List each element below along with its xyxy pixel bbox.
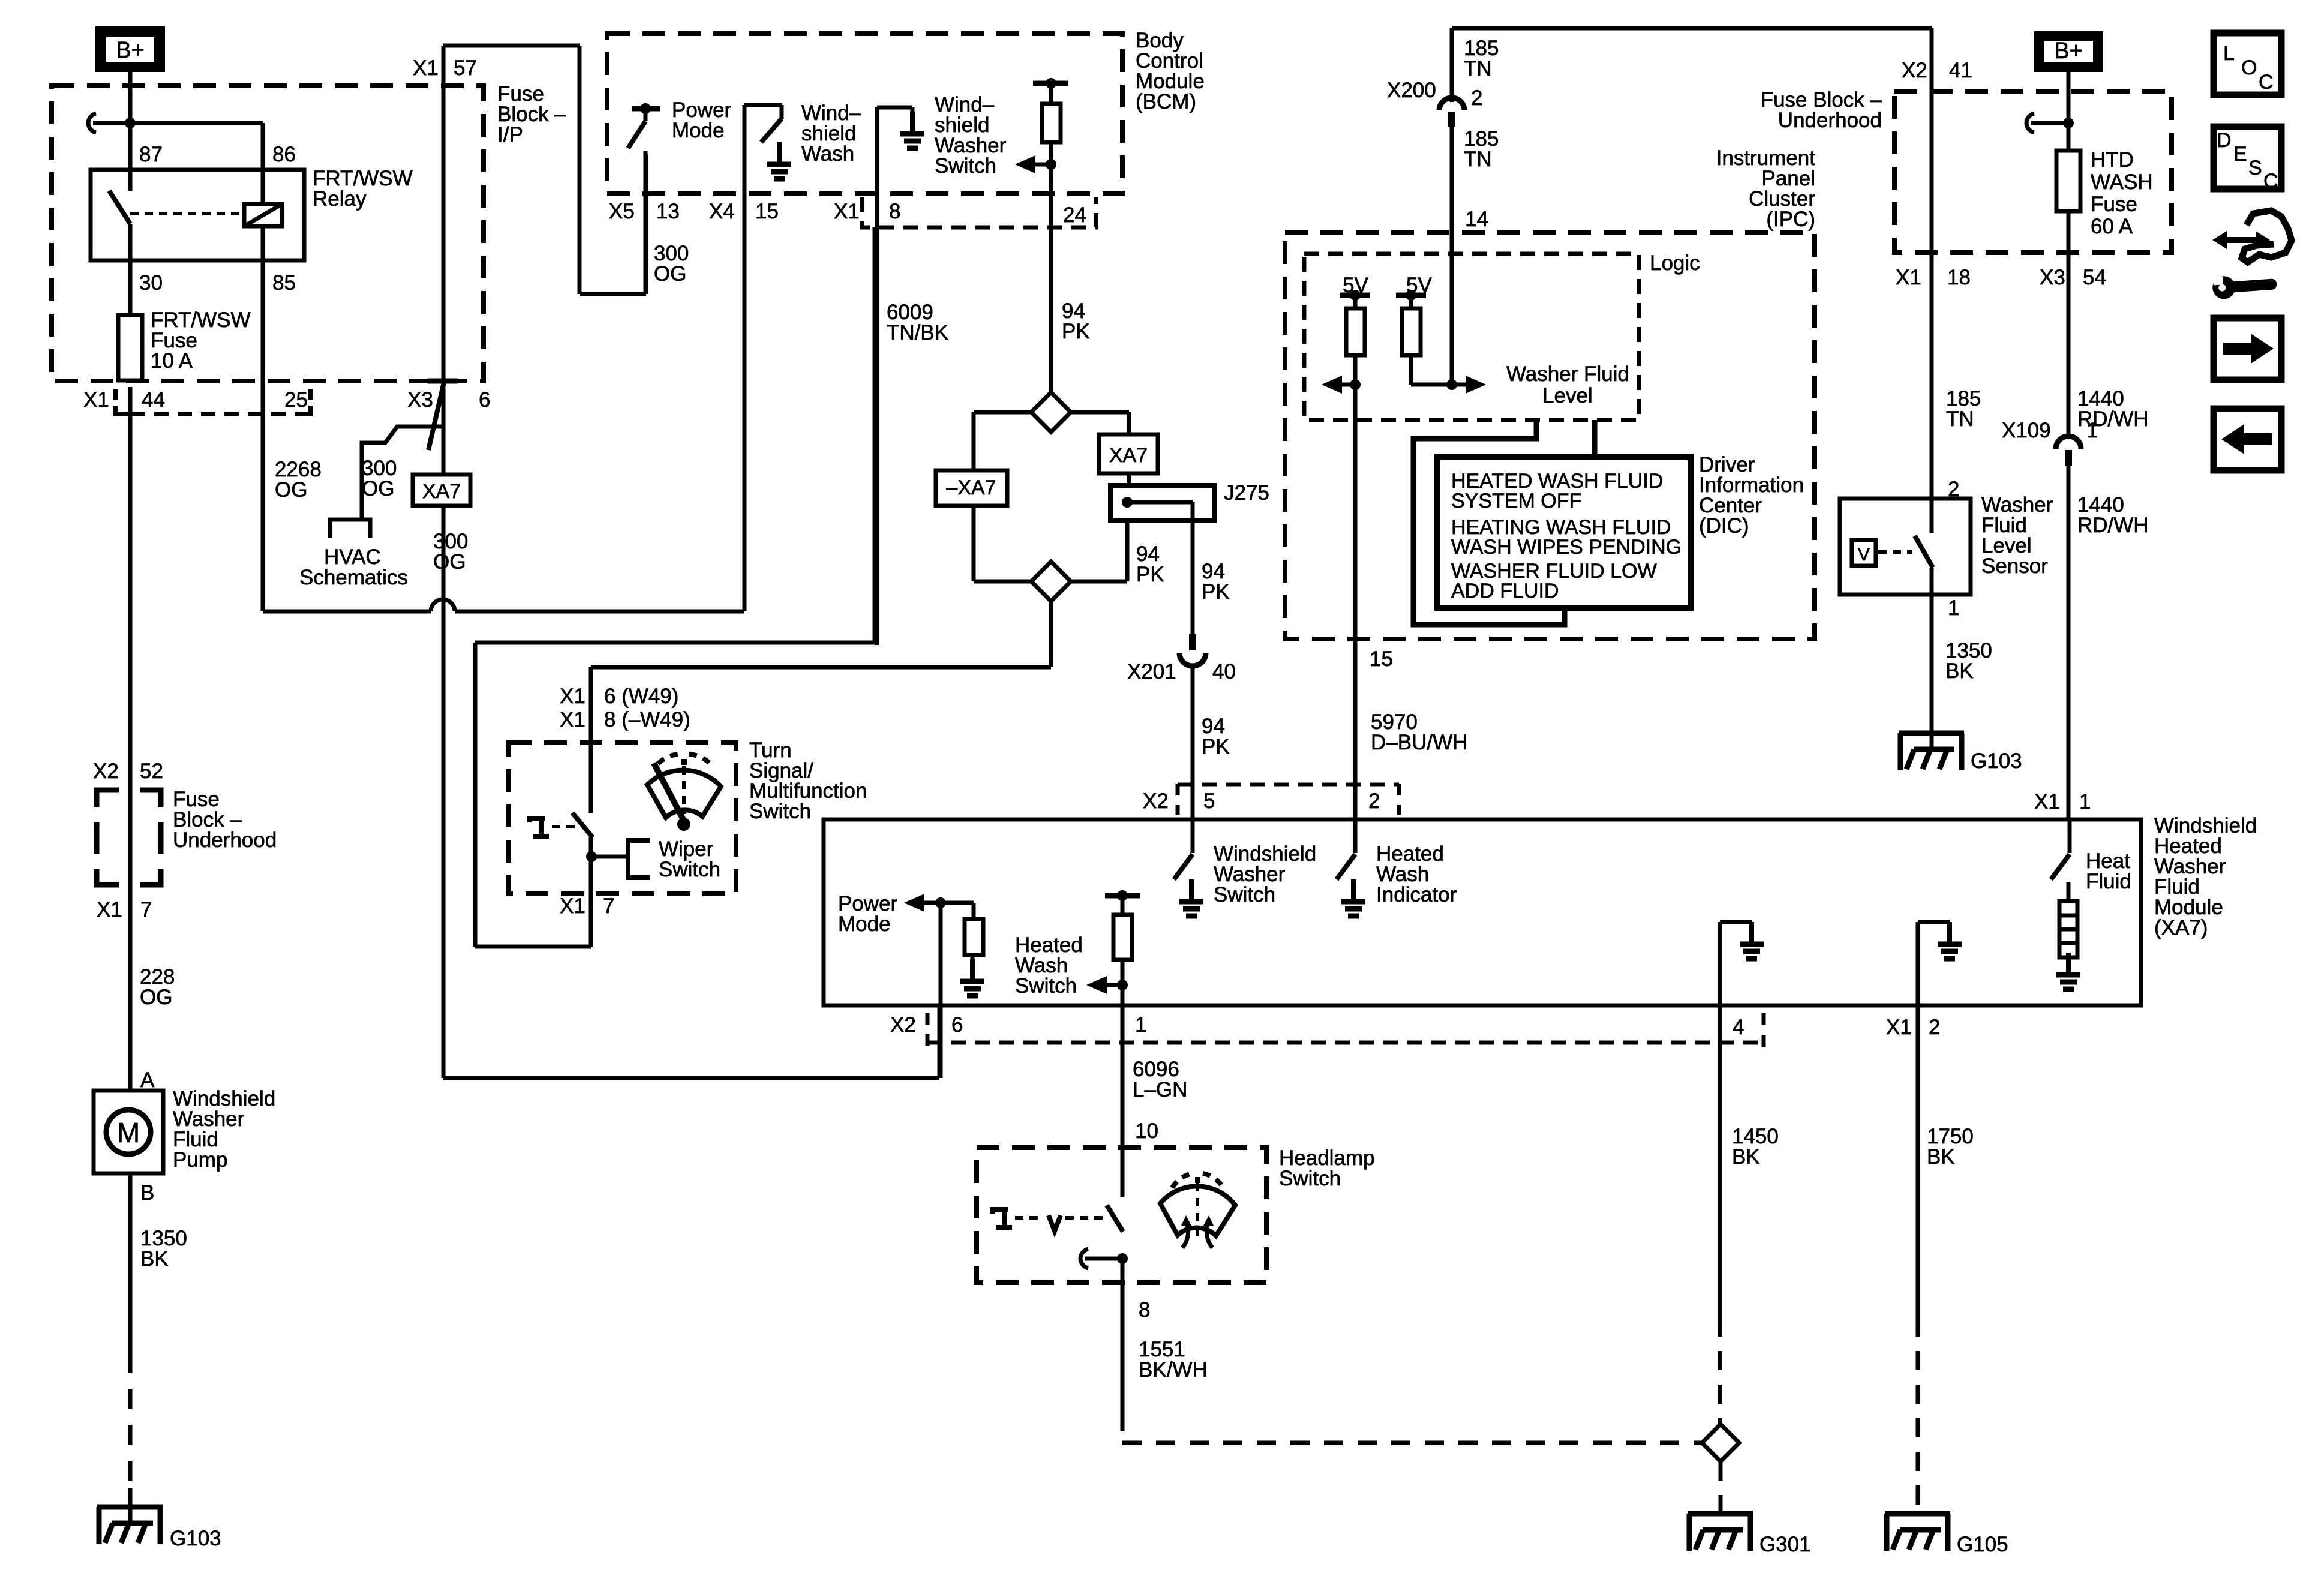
module heated wash column <box>1105 890 1140 1007</box>
svg-text:Sensor: Sensor <box>1981 554 2048 578</box>
svg-text:30: 30 <box>139 271 163 295</box>
wire to turn signal switch <box>589 667 593 813</box>
svg-text:X3: X3 <box>2040 266 2065 289</box>
label Power Mode (BCM) <box>672 98 732 142</box>
label 94 PK (pin24) <box>1062 299 1090 343</box>
label 1350 BK (right) <box>1945 639 1992 683</box>
left branch to diamond 2 <box>974 506 1031 581</box>
svg-text:10 A: 10 A <box>151 349 193 373</box>
labels X1 7 <box>97 898 152 921</box>
svg-text:I/P: I/P <box>497 123 523 146</box>
svg-text:1: 1 <box>1948 596 1959 620</box>
svg-text:PK: PK <box>1202 735 1230 758</box>
label 1440 RD/WH (top) <box>2077 387 2149 431</box>
connector X201 <box>1179 634 1206 666</box>
dashed wire to splice <box>1122 1412 1701 1443</box>
svg-text:PK: PK <box>1062 320 1090 343</box>
pump motor circle <box>106 1110 151 1154</box>
wire 2268 OG run <box>263 599 744 611</box>
label 1440 RD/WH (lower) <box>2077 493 2149 537</box>
washer fluid level sensor box <box>1840 499 1971 595</box>
labels X1 1 (module top right) <box>2034 790 2091 813</box>
module ground 2 <box>1918 922 1962 1005</box>
HVAC branch <box>362 427 443 520</box>
svg-text:X4: X4 <box>709 200 735 223</box>
label 6009 TN/BK <box>887 301 948 344</box>
svg-text:5: 5 <box>1203 789 1215 813</box>
connector X1 bracket <box>113 389 313 414</box>
module power mode resistor branch <box>941 903 983 981</box>
fuse block underhood dashed box <box>1894 91 2172 253</box>
power node B+ (right) <box>2035 32 2103 71</box>
svg-text:OG: OG <box>140 986 172 1009</box>
relay FRT/WSW box <box>91 170 304 260</box>
module power mode arrow <box>904 894 946 912</box>
svg-text:X109: X109 <box>2002 419 2051 442</box>
headlamp blade <box>1107 1205 1123 1232</box>
wire X201 to module pin5 <box>1191 665 1195 819</box>
wire 228 OG (pin44) <box>128 387 133 1091</box>
labels X5 13 <box>609 200 680 223</box>
label 1 (sensor) <box>1948 596 1959 620</box>
svg-text:G103: G103 <box>170 1527 221 1550</box>
resistor 5V-2 <box>1402 308 1421 355</box>
icon arrow right box <box>2214 318 2281 380</box>
label Driver Information Center (DIC) <box>1699 453 1804 538</box>
labels X2 41 <box>1902 59 1972 82</box>
wire res2 to arrow <box>1411 355 1452 385</box>
wire headlamp out <box>1121 1259 1125 1412</box>
ground (indicator) <box>1341 879 1365 916</box>
label 185 TN (top) <box>1464 37 1499 80</box>
fuse HTD WASH 60A <box>2056 151 2080 211</box>
label Windshield Washer Fluid Pump <box>173 1087 275 1172</box>
svg-text:7: 7 <box>140 898 152 921</box>
svg-text:(DIC): (DIC) <box>1699 514 1749 538</box>
label G103 right <box>1971 749 2022 773</box>
svg-text:X201: X201 <box>1127 660 1176 683</box>
connector X109 <box>2056 436 2081 466</box>
svg-text:X2: X2 <box>1902 59 1927 82</box>
connector X2|52 bracket <box>97 790 161 885</box>
wire pin 15 down <box>743 105 747 611</box>
wire to relay coil 86 <box>130 123 263 204</box>
svg-text:60 A: 60 A <box>2091 215 2133 238</box>
svg-text:RD/WH: RD/WH <box>2077 514 2149 537</box>
module heat fluid switch <box>2051 819 2070 901</box>
svg-text:D: D <box>2217 129 2232 152</box>
svg-text:XA7: XA7 <box>1109 444 1148 467</box>
svg-text:X3: X3 <box>407 388 433 412</box>
svg-text:1: 1 <box>1135 1013 1146 1037</box>
svg-text:C: C <box>2263 170 2278 193</box>
label 94 PK (X201 above) <box>1202 560 1230 604</box>
power mode switch (BCM) <box>628 103 660 148</box>
svg-text:X2: X2 <box>1143 789 1169 813</box>
svg-text:A: A <box>140 1068 155 1092</box>
label Wiper Switch <box>659 837 720 881</box>
svg-text:57: 57 <box>454 56 477 80</box>
module washer switch <box>1174 819 1193 879</box>
label 2 (X200) <box>1471 86 1482 110</box>
label 94 PK (below X201) <box>1202 715 1230 758</box>
wiper pivot dot <box>677 818 690 831</box>
svg-text:X2: X2 <box>93 760 119 783</box>
headlamp icon arcs <box>1172 1173 1223 1188</box>
svg-text:2: 2 <box>1471 86 1482 110</box>
svg-text:BK: BK <box>1945 659 1974 683</box>
ground G103 right <box>1899 733 1964 770</box>
svg-text:X1: X1 <box>1896 266 1921 289</box>
wiper icon fan <box>647 770 721 818</box>
svg-text:10: 10 <box>1135 1119 1158 1143</box>
svg-text:87: 87 <box>139 143 163 166</box>
BCM dashed box <box>607 34 1122 194</box>
splice diamond G301 <box>1702 1424 1739 1461</box>
label 185 TN (mid) <box>1464 127 1499 171</box>
arrow washer switch sense <box>1015 155 1056 173</box>
module heated wash indicator <box>1337 819 1355 879</box>
svg-text:ADD FLUID: ADD FLUID <box>1451 580 1559 602</box>
svg-text:B+: B+ <box>116 38 145 63</box>
svg-text:Switch: Switch <box>659 858 720 881</box>
relay coil <box>244 204 282 226</box>
diamond splice 1 <box>1031 392 1071 432</box>
svg-text:14: 14 <box>1465 208 1488 231</box>
labels X1 18 <box>1896 266 1971 289</box>
label Headlamp Switch <box>1279 1146 1375 1190</box>
label G301 <box>1759 1533 1811 1556</box>
ground G103 left <box>97 1507 163 1544</box>
svg-text:25: 25 <box>284 388 308 412</box>
5V source 2 <box>1396 274 1432 308</box>
svg-text:X1: X1 <box>834 200 860 223</box>
labels X2 52 <box>93 760 163 783</box>
svg-text:8: 8 <box>889 200 900 223</box>
dashed wire 1450 BK <box>1718 1005 1722 1424</box>
XA7 box (loop) <box>1099 434 1158 473</box>
label X200 <box>1387 79 1436 102</box>
svg-text:Relay: Relay <box>313 187 367 211</box>
wire B+ to relay 87 <box>128 71 133 191</box>
svg-text:WASH WIPES PENDING: WASH WIPES PENDING <box>1451 536 1682 559</box>
node dot washer fluid level <box>1350 379 1361 390</box>
label G103 left <box>170 1527 221 1550</box>
svg-text:44: 44 <box>142 388 165 412</box>
svg-text:V: V <box>1858 545 1870 565</box>
J275 internal <box>1122 497 1193 634</box>
svg-text:4: 4 <box>1733 1016 1744 1039</box>
svg-text:Fuse: Fuse <box>2091 193 2137 216</box>
fuse block I/P dashed box <box>52 86 484 381</box>
svg-text:X1: X1 <box>1886 1016 1912 1039</box>
pin A label <box>140 1068 155 1092</box>
label FRT/WSW Fuse 10 A <box>151 308 251 373</box>
svg-text:PK: PK <box>1202 580 1230 604</box>
node dot 185TN <box>1446 379 1457 390</box>
IPC dashed box <box>1285 233 1815 639</box>
svg-text:PK: PK <box>1136 563 1164 586</box>
svg-text:WASH: WASH <box>2091 170 2153 194</box>
svg-text:X1: X1 <box>97 898 122 921</box>
wire pin 13 <box>644 151 648 294</box>
wiper switch blade <box>572 813 593 837</box>
svg-text:15: 15 <box>1370 647 1393 671</box>
wire res1 to node <box>1353 355 1358 385</box>
svg-text:Indicator: Indicator <box>1376 883 1457 906</box>
DIC feed 2 <box>1592 420 1598 457</box>
relay switch blade <box>109 191 130 224</box>
labels X4 15 <box>709 200 779 223</box>
svg-text:Switch: Switch <box>935 154 996 178</box>
right branch to XA7 <box>1071 412 1129 434</box>
headlamp v glyph <box>1049 1215 1061 1231</box>
ground (module washer sw) <box>1179 879 1203 916</box>
fuse FRT/WSW 10A <box>118 315 142 380</box>
svg-text:6: 6 <box>951 1013 963 1037</box>
ground G105 <box>1885 1514 1950 1551</box>
svg-text:15: 15 <box>755 200 779 223</box>
label 1551 BK/WH <box>1139 1338 1208 1382</box>
wire XA7 to J275 <box>1127 473 1131 485</box>
label J275 <box>1224 481 1269 505</box>
label Heated Wash Switch <box>1015 933 1083 998</box>
label Wind-shield Wash <box>801 101 861 166</box>
svg-text:40: 40 <box>1212 660 1236 683</box>
ground (power mode res) <box>960 959 984 996</box>
headlamp link dashed 1 <box>1015 1216 1044 1220</box>
icon wrench <box>2212 272 2277 299</box>
label 300 OG (HVAC) <box>362 457 397 500</box>
svg-text:1: 1 <box>2086 419 2098 442</box>
ground (wash switch) <box>767 142 791 179</box>
svg-text:O: O <box>2241 56 2257 79</box>
svg-text:52: 52 <box>140 760 163 783</box>
module top connector dashes <box>1178 784 1399 815</box>
labels X3 6 <box>407 388 490 412</box>
svg-text:X1: X1 <box>560 894 585 918</box>
svg-text:SYSTEM OFF: SYSTEM OFF <box>1451 490 1581 512</box>
label 8 (headlamp) <box>1139 1298 1150 1322</box>
wire diamond2 down-left <box>591 601 1051 667</box>
svg-text:Mode: Mode <box>672 119 725 142</box>
left branch to -XA7 <box>974 412 1031 470</box>
pin B label <box>140 1181 154 1205</box>
wire 85 down <box>261 226 265 611</box>
label X201 <box>1127 660 1176 683</box>
wire wiper out pin7 <box>475 227 875 947</box>
DIC message box <box>1437 457 1691 608</box>
label 1450 BK <box>1732 1125 1779 1169</box>
label 300 OG (below XA7) <box>433 530 468 574</box>
pin 30 <box>139 271 163 295</box>
svg-text:18: 18 <box>1947 266 1971 289</box>
svg-text:OG: OG <box>433 550 466 574</box>
svg-text:Switch: Switch <box>749 800 811 823</box>
svg-text:TN/BK: TN/BK <box>887 321 948 344</box>
connector X1 44/25 labels <box>83 388 308 412</box>
wiper switch link dashed <box>552 825 577 828</box>
label G105 <box>1957 1533 2008 1556</box>
svg-text:X2: X2 <box>890 1013 916 1037</box>
svg-text:13: 13 <box>656 200 680 223</box>
svg-text:–XA7: –XA7 <box>946 476 996 499</box>
label 10 <box>1135 1119 1158 1143</box>
svg-text:TN: TN <box>1464 57 1492 80</box>
svg-text:54: 54 <box>2083 266 2106 289</box>
label Heat Fluid <box>2086 849 2131 893</box>
DIC wrap outline <box>1413 420 1565 625</box>
wire 30 to fuse <box>128 224 133 315</box>
svg-text:X1: X1 <box>2034 790 2060 813</box>
headlamp hook <box>1080 1249 1122 1268</box>
label X109 <box>2002 419 2051 442</box>
svg-text:24: 24 <box>1063 203 1086 227</box>
label Fuse Block - Underhood (left) <box>173 788 277 852</box>
svg-text:85: 85 <box>272 271 296 295</box>
labels X1 8 (BCM) <box>834 200 900 223</box>
labels X1 6 (W49) <box>560 685 678 708</box>
B+ tap hook right <box>2026 113 2068 133</box>
ground (heat element) <box>2056 953 2080 989</box>
label 14 <box>1465 208 1488 231</box>
label 185 TN (sensor) <box>1946 387 1981 431</box>
arrow right (washer fluid level) <box>1452 376 1486 394</box>
svg-text:J275: J275 <box>1224 481 1269 505</box>
svg-text:7: 7 <box>603 894 614 918</box>
wire pin 8 down <box>875 107 879 645</box>
label 1 (X109) <box>2086 419 2098 442</box>
wire X200 down <box>1450 127 1454 385</box>
5V source 1 <box>1340 274 1370 308</box>
pin tick X3|6 <box>428 379 458 384</box>
turn signal box dashed <box>509 743 736 894</box>
label 2 (sensor) <box>1948 478 1959 501</box>
svg-text:B: B <box>140 1181 154 1205</box>
label 15 <box>1370 647 1393 671</box>
svg-text:X5: X5 <box>609 200 635 223</box>
svg-text:Switch: Switch <box>1015 974 1077 998</box>
arrow left (washer fluid level) <box>1322 376 1355 394</box>
svg-text:X1: X1 <box>413 56 439 80</box>
wiper switch pivot <box>586 837 597 862</box>
junction dot B+ bus <box>125 118 136 128</box>
label Fuse Block - Underhood (right) <box>1761 88 1882 132</box>
Logic dashed box <box>1304 254 1639 420</box>
wiper icon blade <box>654 763 684 821</box>
sensor link dashed <box>1878 550 1912 554</box>
svg-text:G301: G301 <box>1759 1533 1811 1556</box>
headlamp switch dashed box <box>977 1148 1266 1283</box>
svg-text:(BCM): (BCM) <box>1136 90 1196 113</box>
svg-text:Pump: Pump <box>173 1148 227 1172</box>
svg-text:E: E <box>2233 143 2247 166</box>
svg-text:OG: OG <box>275 478 307 502</box>
svg-text:8 (–W49): 8 (–W49) <box>604 708 690 731</box>
svg-text:BK: BK <box>1927 1145 1955 1169</box>
B+ tap hook <box>88 113 130 133</box>
label 5970 D-BU/WH <box>1371 710 1467 754</box>
svg-text:8: 8 <box>1139 1298 1150 1322</box>
wire X109 down to module <box>2067 464 2071 819</box>
svg-text:HTD: HTD <box>2091 148 2134 172</box>
label FRT/WSW Relay <box>313 167 413 211</box>
module bottom connector <box>927 1013 1764 1047</box>
module XA7 box <box>824 819 2141 1005</box>
svg-text:Mode: Mode <box>838 912 891 936</box>
heater element <box>2059 901 2077 957</box>
svg-text:Wash: Wash <box>801 142 854 166</box>
svg-text:Fluid: Fluid <box>2086 870 2131 893</box>
dashed wire diamond to G301 <box>1719 1461 1723 1514</box>
ground G301 <box>1688 1514 1753 1551</box>
arrow heated wash switch <box>1086 976 1128 994</box>
label 300 OG (pin13) <box>654 242 689 286</box>
slash X3|6 <box>428 382 444 450</box>
svg-text:Switch: Switch <box>1214 883 1275 906</box>
labels X2 6 1 (module bottom) <box>890 1013 1146 1037</box>
headlamp icon arrows <box>1181 1215 1214 1248</box>
wire 57 down to X3|6 <box>442 46 446 475</box>
headlamp icon center dash <box>1196 1183 1199 1241</box>
BCM sense resistor <box>1033 78 1068 392</box>
windshield wash switch (BCM) <box>744 105 782 142</box>
icon connector glyph <box>2242 211 2292 262</box>
pin 85 <box>272 271 296 295</box>
J275 splice box <box>1110 485 1215 521</box>
svg-text:S: S <box>2248 157 2262 179</box>
wire 300 OG bottom run <box>443 1007 939 1078</box>
wire B+ right down <box>2067 71 2071 151</box>
wire pin6 down <box>939 903 943 1078</box>
svg-text:B+: B+ <box>2054 38 2083 64</box>
XA7 box (left) <box>413 475 470 506</box>
wire X2|41 down <box>1930 28 1934 499</box>
svg-text:L–GN: L–GN <box>1133 1078 1187 1101</box>
svg-text:OG: OG <box>362 477 394 500</box>
wire pin1 down <box>1121 1007 1125 1148</box>
svg-text:X1: X1 <box>560 708 585 731</box>
wire J275 to diamond 2 <box>1071 521 1127 581</box>
headlamp E contact <box>992 1209 1012 1227</box>
headlamp wire in <box>1121 1148 1125 1197</box>
svg-text:Level: Level <box>1542 384 1593 407</box>
labels X2 5 2 (module top) <box>1143 789 1380 813</box>
labels X1 7 (turn) <box>560 894 614 918</box>
pump M box <box>94 1091 163 1173</box>
wiper contact bracket <box>591 840 650 878</box>
svg-text:X1: X1 <box>83 388 109 412</box>
BCM X1 connector bracket <box>862 197 1096 227</box>
label Windshield Heated Washer Fluid Module (XA7) <box>2154 814 2257 939</box>
label Fuse Block - I/P <box>497 82 566 146</box>
junction dot right <box>2063 118 2074 128</box>
dashed wire 1750 BK <box>1916 1005 1920 1514</box>
labels X1 57 <box>413 56 477 80</box>
wire pump to ground <box>128 1173 133 1524</box>
label Instrument Panel Cluster (IPC) <box>1716 146 1816 231</box>
label Washer Fluid Level Sensor <box>1981 493 2053 578</box>
label 40 <box>1212 660 1236 683</box>
svg-text:TN: TN <box>1464 148 1492 171</box>
label 1350 BK (left) <box>140 1227 187 1271</box>
svg-text:X200: X200 <box>1387 79 1436 102</box>
DIC text <box>1451 470 1682 602</box>
label 6096 L-GN <box>1133 1058 1187 1101</box>
svg-text:Underhood: Underhood <box>1778 109 1882 132</box>
svg-text:G105: G105 <box>1957 1533 2008 1556</box>
icon DESC box <box>2214 127 2281 193</box>
